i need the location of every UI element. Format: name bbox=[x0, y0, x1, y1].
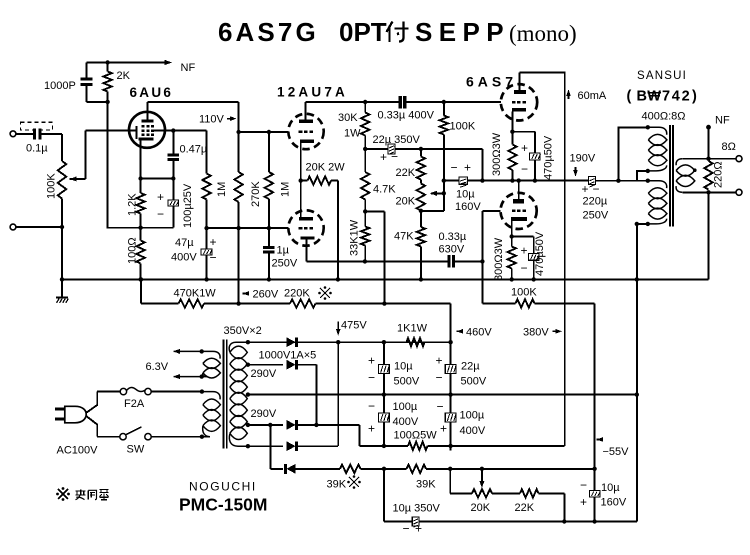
junction bbox=[236, 130, 240, 134]
wire 290V lower bbox=[248, 424, 283, 426]
svg-text:60mA: 60mA bbox=[578, 90, 607, 102]
svg-text:+: + bbox=[368, 422, 375, 436]
wire cathode V2b bbox=[306, 240, 308, 262]
capacitor 0.33u 400V on plate line bbox=[399, 101, 401, 103]
svg-text:100µ: 100µ bbox=[460, 410, 485, 422]
wire transformer bottom bbox=[248, 445, 283, 447]
svg-text:NF: NF bbox=[181, 62, 196, 74]
wire plate 6AU6 to 110V node bbox=[148, 101, 239, 103]
resistor 39K bbox=[407, 465, 427, 473]
speaker terminal top bbox=[736, 156, 742, 162]
svg-text:6AU6: 6AU6 bbox=[130, 85, 174, 100]
capacitor 22u 350V bbox=[387, 148, 389, 150]
resistor 300ohm 3W lower bbox=[511, 237, 513, 247]
wire bias feed bbox=[269, 425, 271, 469]
tube 6AU6 V1 bbox=[129, 112, 165, 148]
mark kome3 bbox=[58, 489, 68, 499]
mark kome2 bbox=[349, 477, 359, 487]
junction bbox=[363, 100, 367, 104]
potentiometer 20K bias bbox=[472, 489, 492, 497]
wire bias return bbox=[383, 469, 385, 522]
wire 20K2W to ground bus bbox=[337, 181, 339, 280]
junction bbox=[562, 519, 566, 523]
capacitor 0.33u 630V bbox=[446, 260, 449, 262]
junction bbox=[382, 467, 386, 471]
wire 270K to 260V line bbox=[238, 228, 240, 304]
svg-text:): ) bbox=[692, 89, 697, 105]
svg-text:0.47µ: 0.47µ bbox=[180, 144, 208, 156]
junction bbox=[510, 130, 514, 134]
resistor 2K bbox=[107, 63, 109, 72]
svg-text:1W: 1W bbox=[344, 128, 361, 140]
svg-text:460V: 460V bbox=[466, 327, 492, 339]
svg-text:22K: 22K bbox=[396, 167, 416, 179]
wire plate V3a 60mA line bbox=[520, 72, 565, 446]
junction bbox=[246, 392, 250, 396]
svg-text:290V: 290V bbox=[251, 408, 277, 420]
junction bbox=[138, 277, 142, 281]
resistor 1.2K bbox=[140, 179, 142, 194]
fuse F2A bbox=[97, 391, 120, 393]
wire bbox=[395, 148, 482, 150]
speaker terminal bottom bbox=[736, 189, 742, 195]
svg-text:−: − bbox=[391, 150, 398, 164]
junction bbox=[246, 423, 250, 427]
junction bbox=[510, 178, 514, 182]
wire center tap rail bbox=[248, 394, 637, 396]
svg-text:−: − bbox=[368, 399, 375, 413]
svg-text:+: + bbox=[440, 422, 447, 436]
svg-text:−: − bbox=[451, 161, 458, 175]
svg-text:1M: 1M bbox=[280, 182, 292, 197]
capacitor 10u 350V bbox=[409, 521, 412, 523]
svg-text:F2A: F2A bbox=[124, 398, 145, 410]
resistor 39K kome bbox=[340, 465, 361, 473]
junction bbox=[105, 100, 109, 104]
svg-text:W: W bbox=[647, 89, 661, 105]
resistor 100ohm bbox=[140, 228, 142, 241]
svg-text:20K: 20K bbox=[396, 196, 416, 208]
wire cathode V2a to plate V2b bbox=[300, 143, 302, 218]
wire 475V filter drop bbox=[383, 342, 385, 446]
wire bbox=[637, 180, 648, 182]
svg-text:NOGUCHI: NOGUCHI bbox=[189, 480, 257, 494]
diode D2 bbox=[287, 360, 296, 370]
junction bbox=[246, 444, 250, 448]
resistor 47K bbox=[420, 211, 422, 227]
svg-text:250V: 250V bbox=[272, 258, 298, 270]
wire output rail 3 bbox=[596, 180, 637, 182]
svg-text:−: − bbox=[368, 371, 375, 385]
input jack J1 bbox=[10, 131, 16, 137]
resistor 22K bbox=[420, 149, 422, 157]
svg-text:47K: 47K bbox=[394, 231, 414, 243]
svg-text:22µ: 22µ bbox=[461, 361, 480, 373]
svg-text:400V: 400V bbox=[460, 425, 486, 437]
junction bbox=[382, 340, 386, 344]
junction bbox=[299, 178, 303, 182]
svg-text:+: + bbox=[582, 182, 589, 196]
wire 100K lower row bbox=[482, 302, 515, 304]
svg-text:220K: 220K bbox=[284, 288, 310, 300]
wire cathode 6AU6 bbox=[140, 141, 142, 179]
transformer OPT core bbox=[669, 125, 671, 227]
wire grid V3b bbox=[482, 210, 500, 212]
junction bbox=[246, 363, 250, 367]
tube 6AS7 V3a bbox=[501, 84, 537, 120]
junction bbox=[204, 226, 208, 230]
svg-text:SW: SW bbox=[127, 444, 145, 456]
svg-text:6.3V: 6.3V bbox=[146, 361, 169, 373]
svg-text:290V: 290V bbox=[251, 368, 277, 380]
capacitor 470u 50V lower bbox=[533, 237, 535, 254]
junction bbox=[314, 423, 318, 427]
svg-text:SANSUI: SANSUI bbox=[637, 70, 687, 82]
junction bbox=[510, 234, 514, 238]
capacitor 470u 50V upper bbox=[534, 132, 536, 153]
transformer PT secondary winding bbox=[229, 342, 248, 352]
junction bbox=[336, 277, 340, 281]
svg-text:100Ω5W: 100Ω5W bbox=[394, 430, 438, 442]
svg-text:220Ω: 220Ω bbox=[713, 161, 725, 188]
svg-text:+: + bbox=[157, 190, 164, 204]
wire bbox=[492, 492, 520, 494]
junction bbox=[138, 226, 142, 230]
capacitor 100u 400V a bbox=[383, 412, 385, 414]
wire bias line bbox=[296, 468, 341, 470]
svg-text:400V: 400V bbox=[393, 416, 419, 428]
svg-text:NF: NF bbox=[715, 115, 730, 127]
wire bbox=[422, 521, 637, 523]
junction bbox=[171, 128, 175, 132]
wire bbox=[296, 445, 339, 447]
svg-text:−: − bbox=[521, 261, 528, 275]
svg-text:1000P: 1000P bbox=[44, 80, 76, 92]
svg-text:500V: 500V bbox=[461, 376, 487, 388]
junction bbox=[510, 277, 514, 281]
wire row 228 bbox=[207, 227, 289, 229]
svg-text:47µ: 47µ bbox=[175, 237, 194, 249]
junction bbox=[706, 190, 710, 194]
wire output rail bbox=[444, 180, 458, 182]
junction bbox=[646, 222, 650, 226]
svg-text:400V: 400V bbox=[171, 252, 197, 264]
svg-text:2K: 2K bbox=[117, 70, 131, 82]
junction bbox=[236, 226, 240, 230]
svg-text:PMC-150M: PMC-150M bbox=[179, 495, 268, 515]
diode D4 bbox=[287, 441, 296, 451]
svg-text:100K: 100K bbox=[511, 287, 537, 299]
svg-text:300Ω3W: 300Ω3W bbox=[493, 237, 505, 281]
junction bbox=[382, 392, 386, 396]
junction bbox=[646, 125, 650, 129]
node NF right bbox=[708, 129, 710, 159]
svg-text:0.1µ: 0.1µ bbox=[26, 143, 48, 155]
svg-text:20K: 20K bbox=[471, 502, 491, 514]
svg-text:12AU7A: 12AU7A bbox=[277, 85, 348, 100]
svg-text:2: 2 bbox=[682, 89, 690, 105]
node 60mA bbox=[568, 92, 570, 99]
wire bbox=[296, 424, 360, 426]
junction bbox=[532, 277, 536, 281]
svg-text:(: ( bbox=[627, 89, 632, 105]
junction bbox=[382, 444, 386, 448]
resistor 100K lower bbox=[516, 299, 535, 307]
transformer OPT secondary bbox=[676, 159, 682, 166]
svg-text:10µ: 10µ bbox=[394, 361, 413, 373]
junction bbox=[592, 467, 596, 471]
transformer PT core bbox=[222, 340, 224, 449]
junction bbox=[635, 392, 639, 396]
svg-text:4: 4 bbox=[672, 89, 680, 105]
diode D1 bbox=[287, 337, 296, 347]
junction bbox=[105, 60, 109, 64]
wire B+ rail bbox=[359, 445, 408, 447]
junction bbox=[442, 178, 446, 182]
svg-text:SEPP: SEPP bbox=[415, 17, 510, 47]
svg-text:−: − bbox=[157, 207, 164, 221]
svg-text:+: + bbox=[380, 150, 387, 164]
svg-text:100K: 100K bbox=[46, 173, 58, 199]
svg-text:20K 2W: 20K 2W bbox=[306, 162, 346, 174]
wire bbox=[426, 468, 595, 470]
wire bbox=[456, 260, 482, 262]
junction bbox=[517, 178, 521, 182]
junction bbox=[635, 277, 639, 281]
svg-text:39K: 39K bbox=[327, 479, 347, 491]
svg-text:39K: 39K bbox=[416, 479, 436, 491]
transformer OPT primary upper bbox=[648, 127, 667, 135]
svg-text:470µ50V: 470µ50V bbox=[534, 231, 546, 276]
wire plate line segment bbox=[306, 101, 401, 103]
wire 290V upper bbox=[248, 364, 283, 366]
svg-text:8Ω: 8Ω bbox=[722, 141, 736, 153]
wire bbox=[296, 364, 317, 366]
svg-text:470µ50V: 470µ50V bbox=[543, 135, 555, 180]
capacitor 22u 500V bbox=[450, 363, 452, 366]
wire 460V drop bbox=[450, 304, 452, 446]
resistor 1M second bbox=[268, 132, 270, 172]
junction bbox=[419, 147, 423, 151]
capacitor 0.1u bbox=[33, 128, 36, 139]
svg-text:630V: 630V bbox=[439, 244, 465, 256]
wire bbox=[421, 210, 444, 212]
resistor 4.7K bbox=[364, 149, 366, 172]
resistor 220K bbox=[290, 299, 316, 307]
wire screen 6AU6 bbox=[154, 130, 207, 132]
wire grid V2a bbox=[239, 131, 289, 133]
label 要調整 (kanji strokes) bbox=[76, 490, 109, 500]
svg-text:7: 7 bbox=[662, 89, 670, 105]
svg-text:−: − bbox=[580, 478, 587, 492]
resistor 33K 1W bbox=[364, 211, 366, 226]
svg-text:33K1W: 33K1W bbox=[349, 219, 361, 256]
svg-text:−: − bbox=[436, 371, 443, 385]
junction bbox=[60, 225, 64, 229]
svg-text:10µ 350V: 10µ 350V bbox=[393, 503, 441, 515]
wire plate V3b bbox=[518, 181, 520, 200]
tube 6AS7 V3b bbox=[500, 193, 536, 229]
svg-text:100µ: 100µ bbox=[393, 401, 418, 413]
svg-text:10µ: 10µ bbox=[456, 189, 475, 201]
svg-text:1.2K: 1.2K bbox=[127, 193, 139, 216]
svg-text:+: + bbox=[464, 161, 471, 175]
resistor 100ohm 5W bbox=[408, 442, 428, 450]
svg-text:−: − bbox=[210, 251, 217, 265]
resistor 20K 2W bbox=[301, 180, 308, 182]
wire bbox=[535, 302, 595, 304]
svg-text:AC100V: AC100V bbox=[57, 445, 99, 457]
junction bbox=[448, 444, 452, 448]
wire secondary bottom bbox=[682, 191, 736, 193]
svg-text:1M: 1M bbox=[216, 182, 228, 197]
junction bbox=[419, 277, 423, 281]
svg-text:−: − bbox=[437, 400, 444, 414]
junction bbox=[448, 467, 452, 471]
capacitor 220u 250V bbox=[587, 180, 589, 182]
svg-text:220µ: 220µ bbox=[583, 196, 608, 208]
junction bbox=[336, 340, 340, 344]
svg-text:0.33µ 400V: 0.33µ 400V bbox=[378, 110, 435, 122]
diode D3 bbox=[287, 420, 296, 430]
wire OPT bottom return bbox=[637, 223, 648, 225]
resistor 100K grid bbox=[443, 102, 445, 116]
transformer PT heater winding 6.3V bbox=[174, 351, 221, 358]
node -55V bbox=[597, 437, 604, 442]
wire 100K bottom bbox=[443, 135, 445, 211]
junction bbox=[171, 176, 175, 180]
wire secondary top bbox=[682, 158, 736, 160]
svg-text:−55V: −55V bbox=[603, 446, 630, 458]
wire plate line to 6AS7 grid bbox=[405, 101, 501, 103]
wire bbox=[449, 469, 451, 494]
diode D5 bbox=[287, 464, 296, 474]
junction bbox=[448, 392, 452, 396]
potentiometer 100K input bbox=[61, 134, 63, 161]
svg-text:160V: 160V bbox=[601, 497, 627, 509]
wire grid 6AU6 bbox=[84, 131, 86, 179]
svg-text:+: + bbox=[521, 141, 528, 155]
junction bbox=[363, 147, 367, 151]
resistor 220ohm bbox=[704, 161, 712, 190]
svg-text:100Ω: 100Ω bbox=[127, 237, 139, 264]
svg-text:0PT: 0PT bbox=[339, 17, 387, 47]
svg-text:22K: 22K bbox=[515, 502, 535, 514]
svg-text:190V: 190V bbox=[570, 153, 596, 165]
svg-text:+: + bbox=[415, 522, 422, 536]
svg-text:380V: 380V bbox=[523, 327, 549, 339]
svg-text:10µ: 10µ bbox=[601, 482, 620, 494]
wire OPT top feed bbox=[618, 127, 647, 180]
wire ground to speaker bbox=[708, 192, 710, 279]
junction bbox=[138, 176, 142, 180]
svg-text:+: + bbox=[368, 354, 375, 368]
junction bbox=[363, 259, 367, 263]
junction bbox=[246, 340, 250, 344]
svg-text:500V: 500V bbox=[394, 376, 420, 388]
capacitor 100u 400V b bbox=[450, 412, 452, 414]
resistor 270K bbox=[238, 132, 240, 172]
junction bbox=[635, 222, 639, 226]
junction bbox=[442, 100, 446, 104]
capacitor 10u 160V bias bbox=[594, 469, 596, 491]
capacitor 100u 25V bbox=[172, 179, 174, 200]
svg-text:+: + bbox=[521, 244, 528, 258]
ground bus bbox=[62, 278, 709, 280]
wire bbox=[361, 468, 407, 470]
svg-text:(mono): (mono) bbox=[509, 21, 577, 46]
junction bbox=[268, 423, 272, 427]
svg-text:6AS7: 6AS7 bbox=[466, 74, 517, 90]
capacitor 10u 500V bbox=[383, 363, 385, 366]
junction bbox=[592, 519, 596, 523]
junction bbox=[480, 467, 484, 471]
resistor 22K bias bbox=[520, 489, 539, 497]
svg-text:1000V1A×5: 1000V1A×5 bbox=[259, 350, 317, 362]
svg-text:B: B bbox=[637, 89, 647, 105]
node 475V bbox=[337, 322, 339, 333]
svg-text:6AS7G: 6AS7G bbox=[218, 17, 319, 47]
wire 33K top to bias divider bbox=[365, 210, 384, 212]
resistor 1M first bbox=[206, 131, 208, 174]
capacitor 0.47u bbox=[172, 131, 174, 156]
wire output rail 2 bbox=[469, 180, 589, 182]
wire 475V line bbox=[248, 341, 451, 343]
junction bbox=[480, 178, 484, 182]
svg-text:270K: 270K bbox=[250, 181, 262, 207]
junction bbox=[442, 191, 446, 195]
junction bbox=[480, 259, 484, 263]
junction bbox=[448, 340, 452, 344]
svg-text:250V: 250V bbox=[583, 210, 609, 222]
wire 260V row bbox=[140, 279, 142, 303]
junction bbox=[706, 157, 710, 161]
mark kome1 bbox=[320, 288, 330, 298]
resistor 30K 1W bbox=[364, 102, 366, 113]
AC plug bbox=[55, 408, 65, 411]
wire step bbox=[637, 171, 648, 181]
svg-text:100K: 100K bbox=[450, 121, 476, 133]
input jack J2 bbox=[10, 224, 16, 230]
junction tap bbox=[693, 168, 697, 172]
svg-text:30K: 30K bbox=[338, 112, 358, 124]
capacitor 47u 400V bbox=[206, 228, 208, 249]
junction bbox=[646, 179, 650, 183]
wire 22u350V row bbox=[365, 148, 388, 150]
svg-text:160V: 160V bbox=[455, 201, 481, 213]
junction bbox=[419, 209, 423, 213]
wire 110V drop bbox=[238, 102, 240, 132]
svg-text:0.33µ: 0.33µ bbox=[439, 231, 467, 243]
wire bbox=[108, 102, 174, 228]
node 460V bbox=[457, 329, 464, 334]
svg-text:350V×2: 350V×2 bbox=[224, 325, 262, 337]
junction bbox=[60, 277, 64, 281]
tube 12AU7A V2b bbox=[288, 210, 323, 245]
svg-text:+: + bbox=[580, 495, 587, 509]
svg-text:4.7K: 4.7K bbox=[373, 184, 396, 196]
capacitor 1000P bbox=[86, 63, 88, 78]
resistor 1K 1W bbox=[407, 338, 425, 346]
junction bbox=[267, 226, 271, 230]
svg-text:260V: 260V bbox=[253, 289, 279, 301]
junction bbox=[267, 130, 271, 134]
node NF left bbox=[108, 62, 167, 64]
junction bbox=[616, 179, 620, 183]
svg-text:1K1W: 1K1W bbox=[397, 323, 428, 335]
transformer PT primary winding bbox=[202, 392, 220, 400]
transformer OPT primary lower bbox=[648, 181, 667, 188]
